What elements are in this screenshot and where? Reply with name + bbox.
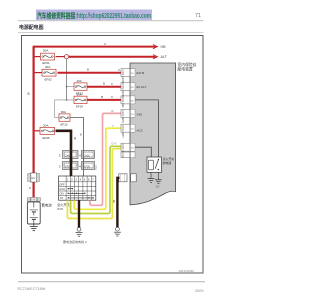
svg-text:3G: 3G (131, 148, 134, 150)
svg-text:ACC: ACC (137, 129, 144, 133)
svg-text:汽车维修资料链接:http://shop62022951.t: 汽车维修资料链接:http://shop62022951.taobao.com (37, 11, 151, 20)
svg-text:EF02: EF02 (45, 78, 53, 82)
arrow ALT (153, 55, 158, 59)
wire: main red battery vertical (32, 47, 34, 201)
svg-text:40A: 40A (77, 79, 82, 83)
svg-text:FM-S-01(09): FM-S-01(09) (179, 269, 194, 273)
wire: EF05 output thick dark to ignition switch (56, 130, 72, 151)
arrow HB (153, 45, 158, 49)
svg-text:30A: 30A (61, 110, 66, 114)
svg-text:EF09: EF09 (84, 165, 91, 169)
svg-text:B: B (29, 186, 31, 190)
wire: branch to EF04 and EF10 feed (55, 100, 74, 118)
block bottom-left pin pair (119, 174, 136, 182)
wire: black ground wire under switch (78, 200, 80, 227)
fuse EF02 input stub (35, 72, 42, 74)
wire: relay contact to ground (157, 172, 159, 180)
svg-text:C#02: C#02 (84, 154, 91, 158)
svg-text:B: B (113, 200, 115, 204)
svg-text:IP33: IP33 (57, 207, 64, 211)
ignition switch table (59, 176, 96, 200)
wire: outer yellow loop from switch pin to block (67, 149, 124, 219)
svg-text:2G: 2G (131, 129, 134, 131)
title underline rule (18, 31, 204, 33)
fuse EF02 (42, 65, 56, 82)
svg-text:1D: 1D (131, 73, 134, 75)
connector row2 box EF09 (82, 162, 95, 170)
svg-text:ACC: ACC (59, 187, 65, 191)
wire: EF10 output to ignition switch (thin dark) (70, 118, 84, 151)
svg-text:X30: X30 (137, 113, 143, 117)
connector row1 box C#01 (59, 151, 81, 159)
svg-text:HB: HB (161, 45, 167, 49)
fuse EF04 (74, 93, 87, 109)
svg-text:EF05: EF05 (43, 136, 51, 140)
svg-text:B: B (101, 95, 103, 99)
svg-text:配电装置: 配电装置 (178, 67, 193, 72)
relay U1 (147, 157, 162, 172)
svg-text:3: 3 (59, 164, 61, 168)
svg-text:Y: Y (112, 124, 114, 128)
svg-text:0.5G: 0.5G (121, 152, 124, 157)
wire: branch to EF03 (67, 86, 74, 88)
svg-text:4: 4 (79, 153, 81, 157)
fuse EF01 input stub (35, 56, 40, 58)
wire black into switch (70, 151, 73, 177)
wire: EF02 output thick red to block (58, 72, 125, 74)
svg-text:OFF: OFF (59, 182, 65, 186)
wire: EF03 output thick red to block (87, 86, 124, 88)
wire: pink from switch pin to block (90, 113, 124, 205)
svg-text:0.5Y: 0.5Y (121, 133, 124, 138)
svg-text:50A: 50A (43, 49, 48, 53)
svg-text:30A: 30A (45, 65, 50, 69)
svg-text:EF10: EF10 (61, 122, 68, 126)
svg-text:R: R (118, 68, 120, 72)
wire through connectors (thin) (83, 159, 85, 162)
svg-text:ON: ON (60, 192, 64, 196)
svg-text:EF24: EF24 (76, 105, 83, 109)
inline connector on red wire (28, 173, 40, 182)
connector row2 box EF08 (59, 162, 81, 170)
block pin boxes on left edge (121, 69, 135, 152)
svg-text:蓄电池: 蓄电池 (42, 203, 53, 208)
junction dots (66, 86, 68, 88)
svg-text:室内保险丝: 室内保险丝 (178, 62, 197, 67)
svg-text:G-Y: G-Y (112, 141, 117, 145)
svg-text:EF ALT: EF ALT (137, 85, 147, 89)
svg-text:电源配电图: 电源配电图 (19, 24, 44, 31)
node A junction circle (65, 55, 69, 59)
wire: EF04 output thick red to block (87, 99, 124, 101)
svg-text:3D: 3D (131, 100, 134, 102)
wire: thin feed from node down (66, 59, 68, 100)
wire: yellow from switch pin to block (74, 128, 124, 209)
wire through connectors (black) (70, 159, 73, 162)
svg-text:R: R (111, 82, 113, 86)
wire: fuse EF01 to node (56, 56, 65, 58)
ground at block wire (114, 227, 121, 236)
svg-text:继电器: 继电器 (163, 160, 172, 165)
svg-text:3: 3 (59, 153, 61, 157)
svg-text:蓄电池接地电线 C: 蓄电池接地电线 C (63, 239, 88, 244)
svg-text:R: R (112, 109, 114, 113)
svg-text:ST: ST (60, 196, 64, 200)
svg-text:EN01: EN01 (31, 199, 38, 202)
svg-text:EC718/EC718W: EC718/EC718W (18, 287, 46, 291)
ground under switch (76, 227, 83, 236)
svg-text:4: 4 (79, 164, 81, 168)
wire: black ground wire from block pin (117, 178, 119, 228)
fuse EF10 feed stub (55, 117, 59, 119)
svg-text:2009: 2009 (195, 289, 203, 293)
wire thin into switch (83, 151, 85, 177)
svg-text:2R: 2R (121, 105, 124, 108)
wire: green-yellow from switch pin to block (71, 146, 125, 213)
wire: red line node to ALT arrow (69, 56, 156, 58)
svg-text:1G: 1G (131, 114, 134, 116)
ground IG1 (148, 179, 155, 183)
pin id vertical texts (121, 70, 124, 154)
wire: inside L from switch feed pin to relay coil (135, 147, 151, 157)
svg-text:20A: 20A (43, 123, 48, 127)
svg-text:30A: 30A (77, 93, 82, 97)
fuse EF05 input stub (35, 130, 40, 132)
svg-text:EN: EN (32, 177, 36, 180)
svg-text:0.85R: 0.85R (121, 78, 124, 85)
ground under battery (30, 224, 38, 231)
svg-text:0.5R: 0.5R (94, 165, 97, 170)
svg-text:B: B (80, 133, 82, 137)
wire: inside L from B pin to relay contact (135, 100, 158, 157)
svg-text:ALT: ALT (161, 55, 168, 59)
battery (27, 202, 40, 224)
svg-text:R: R (111, 95, 113, 99)
fuse EF01 (41, 49, 55, 66)
main border (22, 36, 204, 274)
watermark highlight (36, 10, 152, 21)
footer rule (18, 281, 205, 283)
connector row1 box C#02 (82, 151, 95, 159)
wire: relay coil to ground (150, 172, 152, 178)
svg-text:R: R (104, 42, 106, 46)
ground IG2 (155, 180, 162, 189)
svg-text:B: B (28, 92, 30, 96)
svg-text:0.5R: 0.5R (121, 118, 124, 123)
svg-text:71: 71 (195, 13, 201, 19)
fuse EF03 (74, 79, 87, 95)
fuse box block (gray, right side) (130, 63, 176, 205)
header rule (18, 20, 204, 22)
wire: top red line to HB arrow (33, 46, 156, 48)
svg-text:2D: 2D (131, 87, 134, 89)
svg-text:B: B (87, 68, 89, 72)
svg-text:B: B (74, 137, 76, 141)
svg-text:IG2: IG2 (156, 186, 161, 189)
svg-text:EFI B: EFI B (137, 71, 145, 75)
battery connector EN01 (27, 197, 40, 201)
fuse EF05 (40, 123, 55, 140)
fuse EF10 (59, 110, 70, 126)
svg-text:B: B (103, 82, 105, 86)
svg-text:0.85R: 0.85R (121, 92, 124, 99)
